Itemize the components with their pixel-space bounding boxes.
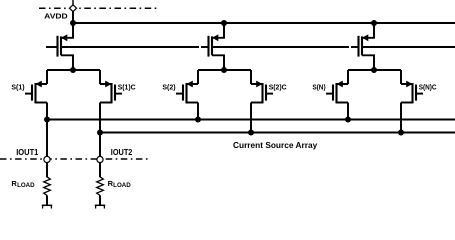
node IOUT2 junction, cell 2 — [248, 130, 254, 136]
transistor switch S(1): source arrow — [36, 81, 42, 88]
svg-text:IOUT2: IOUT2 — [111, 148, 133, 157]
transistor switch S(2)C: drain bar — [251, 102, 263, 104]
node common source, cell N — [371, 67, 377, 73]
wire: S(N) drain to IOUT1 rail — [347, 103, 349, 120]
wire: left branch down to switch source, cell N — [347, 70, 349, 84]
transistor switch S(1)C: channel bar — [110, 83, 112, 103]
transistor switch S(1) PMOS: source bar — [36, 83, 48, 85]
wire: S(N)C drain to IOUT2 rail — [400, 103, 402, 133]
transistor switch S(2): channel bar — [185, 83, 187, 103]
label AVDD — [44, 12, 68, 21]
wire: right branch down to switch source, cell N — [400, 70, 402, 84]
transistor switch S(1)C: drain bar — [100, 102, 112, 104]
wire: left branch down to switch source, cell 1 — [46, 70, 48, 84]
transistor switch S(N): gate bar — [332, 85, 334, 101]
wire: differential pair top bus, cell 1 — [47, 69, 100, 71]
svg-text:LOAD: LOAD — [113, 183, 131, 189]
transistor switch S(N)C: source arrow — [406, 81, 412, 88]
wire: IOUT1 rail — [47, 119, 455, 121]
wire: top boundary dash-dot line — [39, 7, 157, 9]
transistor switch S(N)C PMOS: source bar — [401, 83, 413, 85]
wire: S(1)C drain to IOUT2 rail — [99, 103, 101, 133]
wire: IOUT1 rail down to IOUT1 pin — [46, 120, 48, 157]
transistor switch S(2)C: channel bar — [261, 83, 263, 103]
transistor M2: channel bar — [211, 36, 213, 55]
node IOUT2 junction, cell 1 — [97, 130, 103, 136]
transistor M2: drain wire to common node — [212, 55, 224, 70]
node IOUT1 junction, cell N — [345, 117, 351, 123]
wire: IOUT1 pin to load resistor — [46, 163, 48, 178]
node common source, cell 2 — [221, 67, 227, 73]
ground symbol at IOUT2 — [95, 204, 105, 206]
transistor switch S(N)C: channel bar — [411, 83, 413, 103]
transistor M3: channel bar — [361, 36, 363, 55]
label S(N) — [312, 85, 325, 92]
wire: AVDD pin to AVDD rail — [72, 12, 74, 23]
wire: AVDD power rail — [73, 22, 455, 24]
transistor M2 current-source PMOS, cell 2: source wire — [213, 23, 224, 38]
node AVDD junction, cell N — [371, 20, 377, 26]
transistor M3: gate bar — [357, 36, 359, 57]
wire: S(2)C drain to IOUT2 rail — [250, 103, 252, 133]
transistor M2: gate bar — [207, 36, 209, 57]
transistor switch S(2)C: gate bar — [265, 85, 267, 101]
transistor switch S(1): channel bar — [34, 83, 36, 103]
wire: S(2) drain to IOUT1 rail — [197, 103, 199, 120]
transistor M1: source arrow — [61, 34, 67, 41]
transistor M2: source arrow — [212, 34, 218, 41]
transistor switch S(2) PMOS: source bar — [187, 83, 199, 85]
label RLOAD right — [108, 179, 132, 189]
IOUT1 port circle — [44, 156, 50, 162]
transistor switch S(N): drain bar — [337, 102, 349, 104]
label S(1) — [11, 85, 24, 92]
wire: resistor to ground at IOUT1 — [46, 195, 48, 205]
wire: S(1) drain to IOUT1 rail — [46, 103, 48, 120]
transistor M3: drain wire to common node — [362, 55, 374, 70]
transistor M1 current-source PMOS, cell 1: source wire — [62, 23, 73, 38]
wire: PMOS gate bias rail segment 2 — [212, 46, 349, 48]
wire: PMOS gate bias rail segment 1 — [61, 46, 200, 48]
label S(N)C — [419, 85, 437, 92]
transistor switch S(2): gate bar — [182, 85, 184, 101]
transistor switch S(1)C: gate bar — [114, 85, 116, 101]
svg-text:AVDD: AVDD — [44, 12, 68, 21]
transistor switch S(N)C: gate stub — [416, 93, 423, 95]
transistor switch S(N): channel bar — [335, 83, 337, 103]
transistor M3: source arrow — [362, 34, 368, 41]
svg-text:Current Source Array: Current Source Array — [233, 140, 318, 150]
transistor switch S(2)C: gate stub — [266, 93, 273, 95]
transistor switch S(1)C: gate stub — [115, 93, 122, 95]
transistor switch S(N)C: drain bar — [401, 102, 413, 104]
node common source, cell 1 — [70, 67, 76, 73]
wire: right branch down to switch source, cell 1 — [99, 70, 101, 84]
wire: IOUT2 rail down to IOUT2 pin — [99, 133, 101, 157]
transistor switch S(N)C: gate bar — [415, 85, 417, 101]
label RLOAD left — [11, 179, 35, 189]
node AVDD junction, cell 2 — [221, 20, 227, 26]
transistor switch S(N): source arrow — [337, 81, 343, 88]
transistor switch S(2): drain bar — [187, 102, 199, 104]
resistor RLOAD at IOUT2 — [97, 177, 104, 196]
wire: stub above AVDD pin — [72, 0, 74, 5]
label Current Source Array caption — [233, 140, 318, 150]
transistor M1: channel bar — [60, 36, 62, 55]
wire: left branch down to switch source, cell 2 — [197, 70, 199, 84]
transistor switch S(2)C: source arrow — [256, 81, 262, 88]
label IOUT1 — [16, 148, 39, 157]
node IOUT2 junction, cell N — [398, 130, 404, 136]
transistor switch S(2)C PMOS: source bar — [251, 83, 263, 85]
node IOUT1 junction, cell 2 — [195, 117, 201, 123]
transistor M1: drain wire to common node — [61, 55, 73, 70]
wire: bottom boundary dash-dot line — [0, 158, 150, 160]
transistor M3 current-source PMOS, cell N: source wire — [363, 23, 374, 38]
svg-text:S(1)C: S(1)C — [118, 85, 136, 92]
transistor switch S(1): gate stub — [25, 93, 32, 95]
wire: IOUT2 rail — [100, 132, 455, 134]
transistor switch S(N) PMOS: source bar — [337, 83, 349, 85]
wire: PMOS gate bias rail segment 3 — [362, 46, 455, 48]
transistor switch S(1)C: source arrow — [105, 81, 111, 88]
wire: right branch down to switch source, cell 2 — [250, 70, 252, 84]
transistor M1: gate bar — [56, 36, 58, 57]
IOUT2 port circle — [97, 156, 103, 162]
svg-text:LOAD: LOAD — [17, 183, 35, 189]
svg-text:S(1): S(1) — [11, 85, 24, 92]
transistor M2: gate stub — [201, 46, 209, 48]
transistor switch S(2): source arrow — [187, 81, 193, 88]
AVDD port diamond — [69, 5, 76, 12]
transistor switch S(2): gate stub — [176, 93, 183, 95]
label S(1)C — [118, 85, 136, 92]
node IOUT1 junction, cell 1 — [44, 117, 50, 123]
svg-text:IOUT1: IOUT1 — [16, 148, 39, 157]
transistor M3: gate stub — [351, 46, 359, 48]
svg-text:S(2): S(2) — [162, 85, 175, 92]
svg-text:S(N)C: S(N)C — [419, 85, 437, 92]
label S(2)C — [269, 85, 287, 92]
transistor switch S(N): gate stub — [326, 93, 333, 95]
ground symbol at IOUT1 — [42, 204, 52, 206]
transistor switch S(1)C PMOS: source bar — [100, 83, 112, 85]
transistor switch S(1): drain bar — [36, 102, 48, 104]
wire: IOUT2 pin to load resistor — [99, 163, 101, 178]
resistor RLOAD at IOUT1 — [44, 177, 51, 196]
node AVDD junction, cell 1 — [70, 20, 76, 26]
label IOUT2 — [111, 148, 133, 157]
transistor M1: gate stub — [46, 46, 58, 48]
transistor switch S(1): gate bar — [31, 85, 33, 101]
wire: resistor to ground at IOUT2 — [99, 195, 101, 205]
wire: differential pair top bus, cell N — [348, 69, 401, 71]
svg-text:S(N): S(N) — [312, 85, 325, 92]
wire: differential pair top bus, cell 2 — [198, 69, 251, 71]
svg-text:S(2)C: S(2)C — [269, 85, 287, 92]
label S(2) — [162, 85, 175, 92]
